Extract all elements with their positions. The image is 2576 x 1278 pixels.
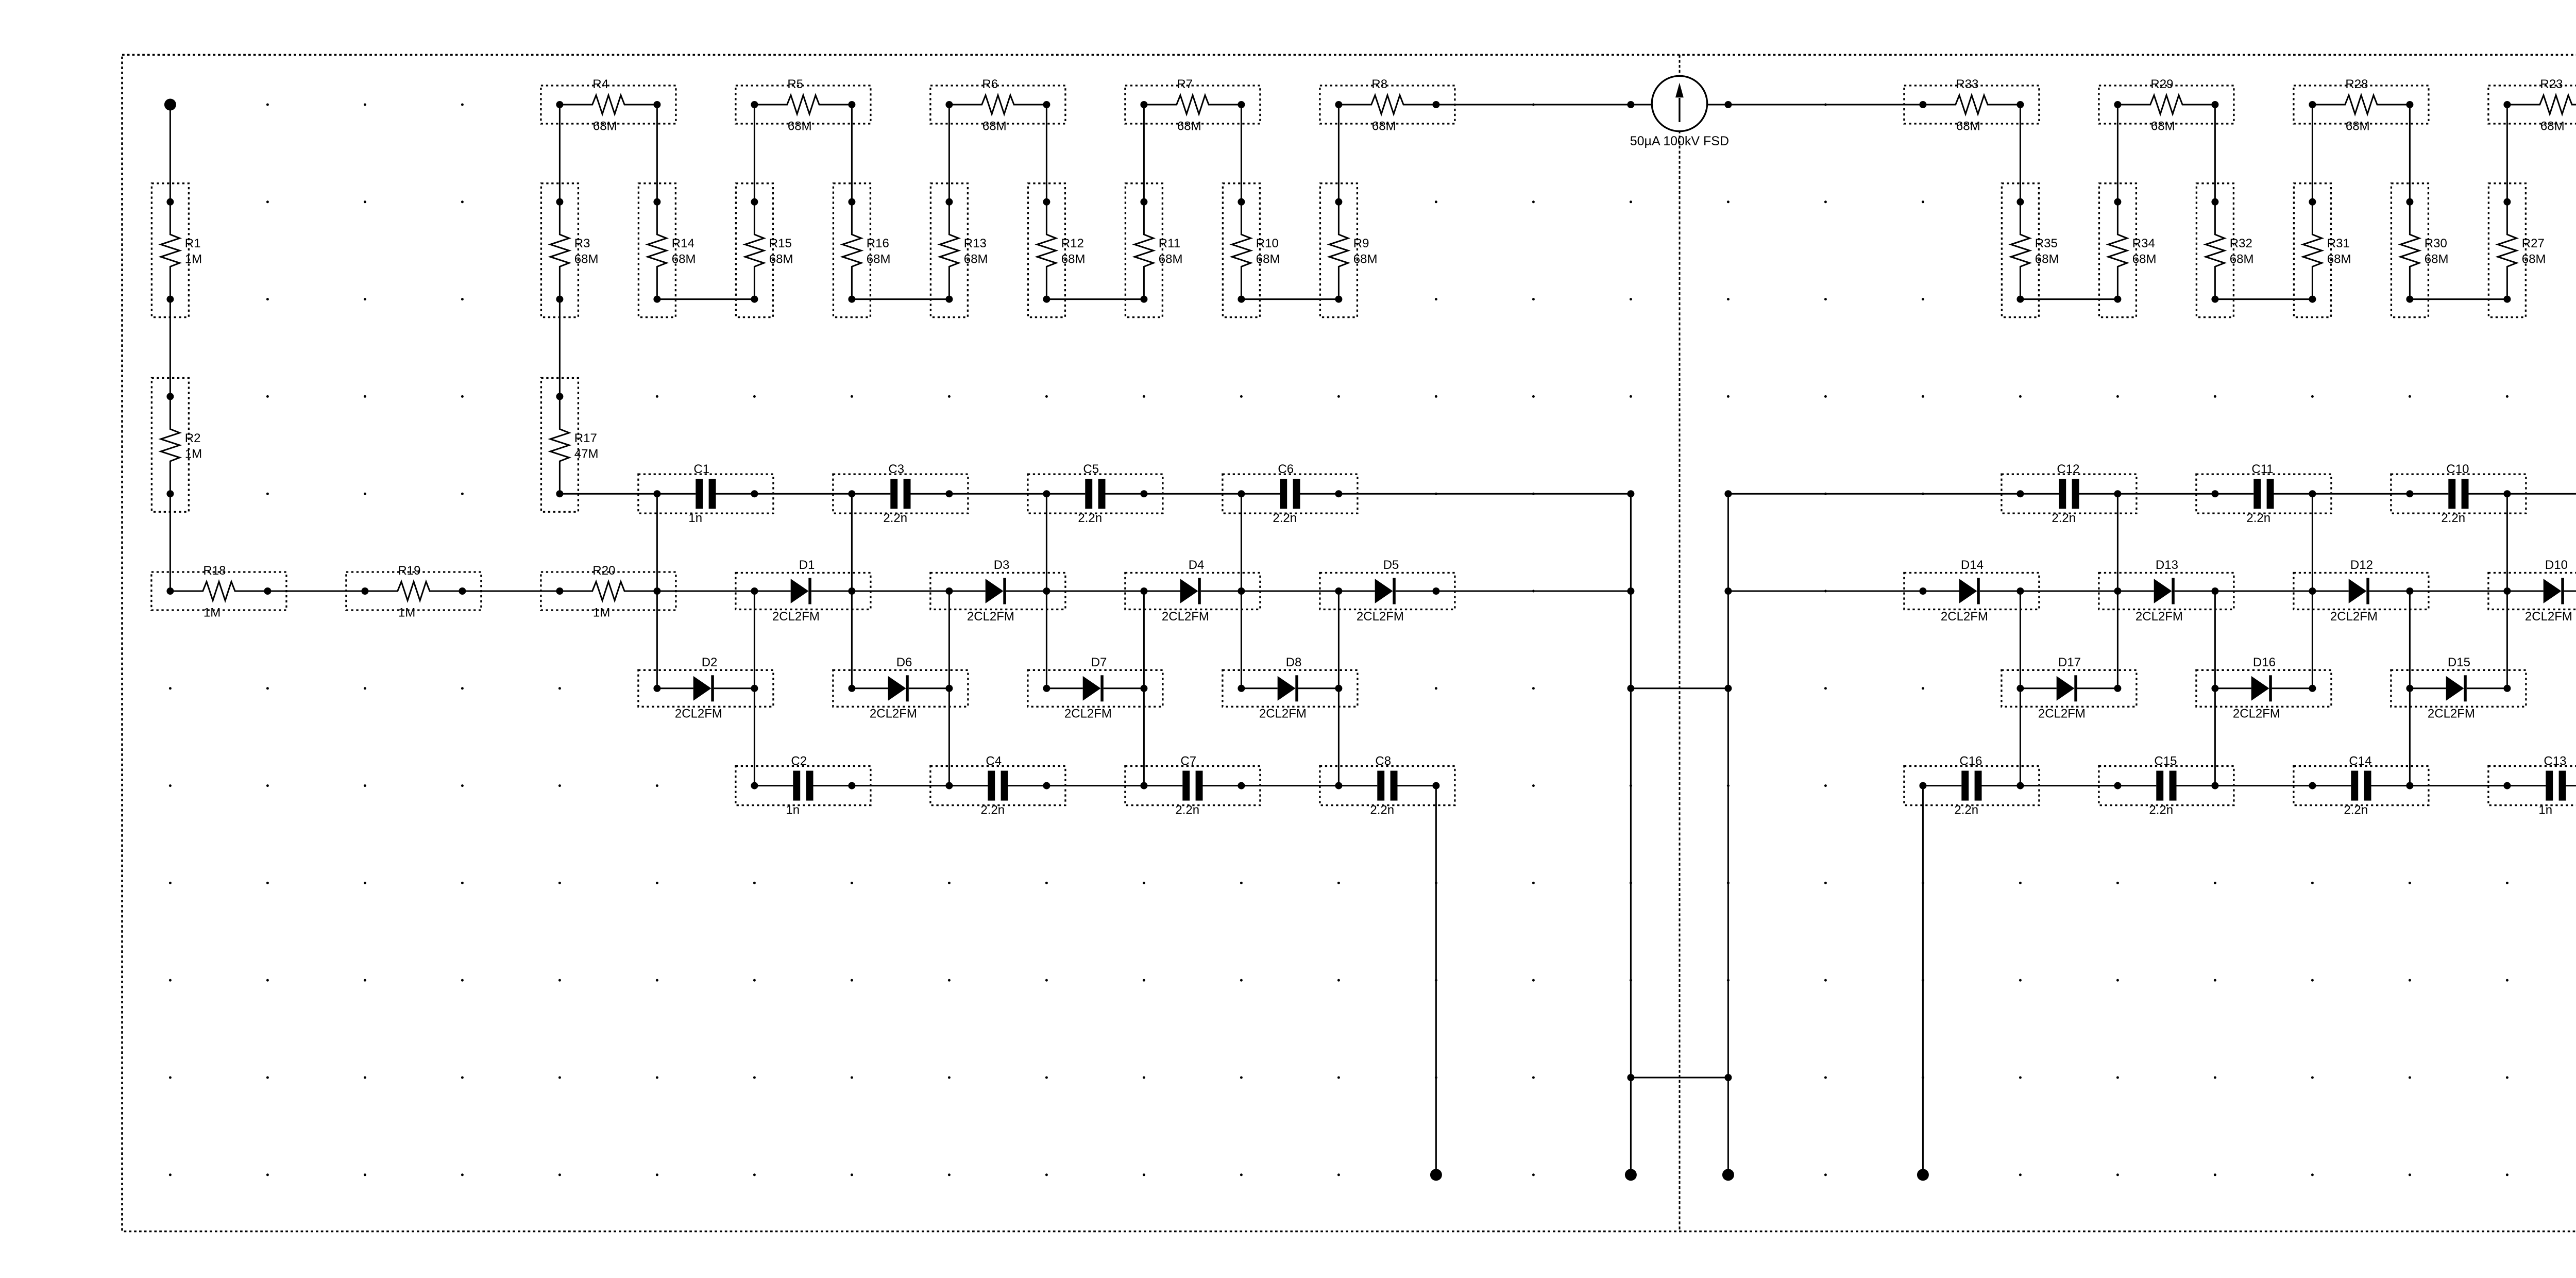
svg-text:2.2n: 2.2n [2149, 803, 2173, 817]
resistor R34 68M [2099, 183, 2156, 317]
svg-text:R10: R10 [1256, 237, 1279, 250]
svg-text:68M: 68M [2522, 253, 2546, 266]
svg-text:D5: D5 [1383, 558, 1399, 572]
wire [754, 591, 755, 786]
diode D8 2CL2FM [1223, 655, 1358, 721]
svg-text:68M: 68M [2132, 253, 2157, 266]
svg-text:C15: C15 [2154, 754, 2177, 768]
resistor R19 1M [346, 564, 481, 619]
svg-text:2.2n: 2.2n [1954, 803, 1978, 817]
wire [949, 493, 1046, 495]
svg-text:47M: 47M [574, 447, 599, 461]
wire C8 to output terminal [1435, 786, 1437, 1175]
svg-text:R27: R27 [2522, 237, 2545, 250]
svg-text:D16: D16 [2253, 655, 2276, 669]
svg-text:2.2n: 2.2n [2441, 511, 2465, 525]
svg-text:68M: 68M [2425, 253, 2449, 266]
svg-text:C6: C6 [1278, 462, 1294, 476]
wire [852, 298, 949, 300]
svg-text:2CL2FM: 2CL2FM [675, 707, 722, 721]
diode D1 2CL2FM [736, 558, 871, 624]
svg-text:C10: C10 [2446, 462, 2469, 476]
wire [2312, 105, 2313, 202]
wire [560, 493, 657, 495]
svg-text:2CL2FM: 2CL2FM [2233, 707, 2280, 721]
svg-text:68M: 68M [2327, 253, 2351, 266]
svg-text:D1: D1 [799, 558, 815, 572]
resistor R6 68M [930, 77, 1065, 133]
wire [754, 493, 852, 495]
svg-text:R14: R14 [672, 237, 694, 250]
svg-text:R4: R4 [592, 77, 608, 91]
wire [2214, 591, 2216, 786]
diode D13 2CL2FM [2099, 558, 2234, 624]
capacitor C15 2.2n [2099, 754, 2234, 817]
svg-text:68M: 68M [2346, 119, 2370, 133]
wire C16 to output terminal [1922, 786, 1924, 1175]
svg-text:68M: 68M [788, 119, 812, 133]
svg-text:2CL2FM: 2CL2FM [870, 707, 917, 721]
svg-text:C4: C4 [986, 754, 1002, 768]
resistor R3 68M [541, 183, 598, 317]
svg-text:R30: R30 [2425, 237, 2447, 250]
wire [1338, 493, 1631, 495]
junction [1627, 685, 1634, 692]
terminal left HV input [164, 99, 176, 111]
svg-text:2.2n: 2.2n [1175, 803, 1199, 817]
svg-text:2CL2FM: 2CL2FM [2136, 610, 2183, 624]
resistor R17 47M [541, 378, 598, 512]
resistor R18 1M [151, 564, 286, 619]
resistor R30 68M [2391, 183, 2448, 317]
svg-text:C16: C16 [1959, 754, 1982, 768]
wire [1241, 785, 1338, 786]
resistor R7 68M [1125, 77, 1260, 133]
wire [1046, 785, 1144, 786]
wire [1144, 493, 1241, 495]
svg-text:R32: R32 [2230, 237, 2252, 250]
svg-text:2CL2FM: 2CL2FM [772, 610, 820, 624]
resistor R4 68M [541, 77, 676, 133]
wire center tie upper [1631, 687, 1728, 689]
svg-text:R23: R23 [2540, 77, 2563, 91]
svg-text:68M: 68M [1372, 119, 1396, 133]
wire [948, 591, 950, 786]
svg-text:1M: 1M [398, 606, 415, 619]
wire center right rail [1727, 494, 1729, 1175]
diode D10 2CL2FM [2488, 558, 2576, 624]
svg-text:R17: R17 [574, 431, 597, 445]
svg-text:2.2n: 2.2n [1370, 803, 1394, 817]
svg-text:1M: 1M [185, 253, 202, 266]
svg-text:2CL2FM: 2CL2FM [1357, 610, 1404, 624]
diode D17 2CL2FM [2002, 655, 2137, 721]
resistor R33 68M [1904, 77, 2039, 133]
resistor R14 68M [638, 183, 696, 317]
svg-text:2CL2FM: 2CL2FM [2525, 610, 2572, 624]
svg-text:C14: C14 [2349, 754, 2371, 768]
svg-text:C7: C7 [1180, 754, 1196, 768]
resistor R28 68M [2294, 77, 2429, 133]
wire [2020, 298, 2117, 300]
svg-text:R9: R9 [1353, 237, 1369, 250]
resistor R5 68M [736, 77, 871, 133]
capacitor C16 2.2n [1904, 754, 2039, 817]
wire [2214, 105, 2216, 202]
resistor R10 68M [1223, 183, 1280, 317]
terminal output C [1722, 1169, 1734, 1181]
resistor R29 68M [2099, 77, 2234, 133]
wire [2020, 591, 2117, 592]
svg-text:68M: 68M [1177, 119, 1201, 133]
wire [851, 494, 853, 688]
wire [1241, 591, 1338, 592]
capacitor C3 2.2n [833, 462, 968, 525]
svg-text:R15: R15 [769, 237, 792, 250]
capacitor C1 1n [638, 462, 773, 525]
wire [2409, 591, 2411, 786]
diode D4 2CL2FM [1125, 558, 1260, 624]
svg-text:2CL2FM: 2CL2FM [1064, 707, 1112, 721]
svg-text:1M: 1M [593, 606, 610, 619]
svg-text:D15: D15 [2448, 655, 2470, 669]
resistor R12 68M [1028, 183, 1085, 317]
svg-text:1M: 1M [185, 447, 202, 461]
wire [1338, 105, 1340, 202]
diode D3 2CL2FM [930, 558, 1065, 624]
svg-text:D2: D2 [702, 655, 718, 669]
wire [2410, 591, 2507, 592]
capacitor C6 2.2n [1223, 462, 1358, 525]
svg-text:2CL2FM: 2CL2FM [1259, 707, 1307, 721]
terminal output B [1625, 1169, 1637, 1181]
wire [1728, 591, 1923, 592]
resistor R1 1M [151, 183, 202, 317]
wire [1338, 591, 1340, 786]
capacitor C5 2.2n [1028, 462, 1163, 525]
wire [657, 591, 754, 592]
wire [2020, 105, 2021, 202]
wire [656, 494, 658, 688]
svg-text:R8: R8 [1371, 77, 1387, 91]
wire [1728, 104, 1923, 106]
wire [2410, 298, 2507, 300]
capacitor C14 2.2n [2294, 754, 2429, 817]
svg-text:R18: R18 [203, 564, 226, 578]
svg-text:D17: D17 [2058, 655, 2081, 669]
resistor R15 68M [736, 183, 793, 317]
svg-text:68M: 68M [2035, 253, 2059, 266]
wire center left rail [1630, 494, 1632, 1175]
capacitor C12 2.2n [2002, 462, 2137, 525]
svg-text:C12: C12 [2057, 462, 2079, 476]
svg-text:2.2n: 2.2n [1273, 511, 1297, 525]
svg-text:2CL2FM: 2CL2FM [967, 610, 1014, 624]
capacitor C11 2.2n [2196, 462, 2331, 525]
wire [559, 299, 561, 397]
resistor R27 68M [2488, 183, 2546, 317]
wire [2215, 785, 2312, 786]
svg-text:2CL2FM: 2CL2FM [1941, 610, 1988, 624]
capacitor C13 1n [2488, 754, 2576, 817]
svg-text:R29: R29 [2150, 77, 2173, 91]
wire [2117, 494, 2119, 688]
resistor R35 68M [2002, 183, 2059, 317]
capacitor C2 1n [736, 754, 871, 817]
svg-text:68M: 68M [769, 253, 793, 266]
svg-text:R13: R13 [964, 237, 987, 250]
wire [1241, 298, 1338, 300]
svg-text:C5: C5 [1083, 462, 1099, 476]
svg-text:R34: R34 [2132, 237, 2155, 250]
resistor R20 1M [541, 564, 676, 619]
capacitor C7 2.2n [1125, 754, 1260, 817]
svg-text:D12: D12 [2350, 558, 2373, 572]
junction [1627, 587, 1634, 595]
wire [2409, 105, 2411, 202]
svg-text:68M: 68M [672, 253, 696, 266]
wire [2020, 591, 2021, 786]
svg-text:R1: R1 [185, 237, 201, 250]
svg-text:R33: R33 [1956, 77, 1978, 91]
resistor R16 68M [833, 183, 890, 317]
svg-text:68M: 68M [593, 119, 617, 133]
svg-text:R3: R3 [574, 237, 590, 250]
svg-text:68M: 68M [867, 253, 891, 266]
svg-text:1n: 1n [688, 511, 702, 525]
svg-text:1n: 1n [786, 803, 800, 817]
svg-text:68M: 68M [2230, 253, 2254, 266]
svg-text:68M: 68M [964, 253, 988, 266]
svg-text:2.2n: 2.2n [2344, 803, 2368, 817]
wire [170, 494, 171, 591]
svg-text:D3: D3 [994, 558, 1010, 572]
resistor R31 68M [2294, 183, 2351, 317]
wire [948, 105, 950, 202]
wire [1143, 591, 1145, 786]
wire [2020, 785, 2117, 786]
resistor R2 1M [151, 378, 202, 512]
diode D5 2CL2FM [1320, 558, 1455, 624]
junction [1627, 1074, 1634, 1081]
svg-text:68M: 68M [2151, 119, 2175, 133]
wire [2507, 493, 2576, 495]
svg-text:C1: C1 [693, 462, 709, 476]
svg-text:D6: D6 [896, 655, 912, 669]
resistor R9 68M [1320, 183, 1377, 317]
wire [851, 105, 853, 202]
diode D14 2CL2FM [1904, 558, 2039, 624]
svg-text:D4: D4 [1189, 558, 1205, 572]
svg-text:2CL2FM: 2CL2FM [2428, 707, 2475, 721]
junction [1724, 1074, 1732, 1081]
svg-text:2.2n: 2.2n [2246, 511, 2270, 525]
wire [559, 105, 561, 202]
wire [657, 298, 754, 300]
svg-text:68M: 68M [1061, 253, 1086, 266]
junction [1724, 685, 1732, 692]
svg-text:D13: D13 [2156, 558, 2178, 572]
wire [2215, 298, 2312, 300]
svg-text:1n: 1n [2538, 803, 2552, 817]
svg-text:2CL2FM: 2CL2FM [2038, 707, 2086, 721]
svg-text:C11: C11 [2251, 462, 2273, 476]
svg-text:C13: C13 [2544, 754, 2566, 768]
meter M1 50uA 100kV FSD [1627, 76, 1732, 148]
wire center tie lower [1631, 1077, 1728, 1079]
wire [1728, 493, 2020, 495]
wire [2312, 494, 2313, 688]
svg-text:68M: 68M [574, 253, 599, 266]
wire [1046, 105, 1047, 202]
svg-text:D7: D7 [1091, 655, 1107, 669]
wire [2506, 494, 2508, 688]
wire [170, 299, 171, 397]
svg-text:D14: D14 [1961, 558, 1984, 572]
junction [1724, 587, 1732, 595]
svg-text:2CL2FM: 2CL2FM [1162, 610, 1209, 624]
wire [852, 591, 949, 592]
svg-text:2.2n: 2.2n [2052, 511, 2076, 525]
diode D6 2CL2FM [833, 655, 968, 721]
svg-text:R31: R31 [2327, 237, 2350, 250]
svg-text:R28: R28 [2345, 77, 2368, 91]
terminal output A [1430, 1169, 1442, 1181]
wire [2312, 493, 2410, 495]
wire [1241, 494, 1242, 688]
wire [170, 105, 171, 202]
wire [2215, 591, 2312, 592]
wire [1046, 298, 1144, 300]
svg-text:68M: 68M [1956, 119, 1980, 133]
svg-text:R35: R35 [2035, 237, 2058, 250]
wire [2410, 785, 2507, 786]
svg-text:68M: 68M [1159, 253, 1183, 266]
wire [462, 591, 560, 592]
wire [2117, 493, 2215, 495]
resistor R13 68M [930, 183, 988, 317]
svg-text:R11: R11 [1159, 237, 1180, 250]
wire [852, 785, 949, 786]
junction [1724, 490, 1732, 497]
wire [754, 105, 755, 202]
diode D15 2CL2FM [2391, 655, 2526, 721]
svg-text:R7: R7 [1177, 77, 1193, 91]
svg-text:2.2n: 2.2n [883, 511, 907, 525]
diode D12 2CL2FM [2294, 558, 2429, 624]
svg-text:R12: R12 [1061, 237, 1084, 250]
svg-text:2.2n: 2.2n [1078, 511, 1102, 525]
svg-text:1M: 1M [204, 606, 221, 619]
wire [1436, 104, 1631, 106]
svg-text:R5: R5 [787, 77, 803, 91]
svg-text:C3: C3 [888, 462, 904, 476]
wire [1143, 105, 1145, 202]
svg-text:D10: D10 [2545, 558, 2568, 572]
svg-text:C2: C2 [791, 754, 807, 768]
svg-text:2.2n: 2.2n [980, 803, 1005, 817]
wire [2506, 105, 2508, 202]
diode D16 2CL2FM [2196, 655, 2331, 721]
resistor R8 68M [1320, 77, 1455, 133]
diode D2 2CL2FM [638, 655, 773, 721]
resistor R11 68M [1125, 183, 1182, 317]
svg-text:R19: R19 [398, 564, 420, 578]
capacitor C10 2.2n [2391, 462, 2526, 525]
junction [1627, 490, 1634, 497]
svg-text:R6: R6 [982, 77, 998, 91]
terminal output D [1917, 1169, 1929, 1181]
capacitor C8 2.2n [1320, 754, 1455, 817]
svg-text:D8: D8 [1286, 655, 1302, 669]
svg-text:68M: 68M [1256, 253, 1280, 266]
svg-text:R20: R20 [592, 564, 615, 578]
svg-text:C8: C8 [1375, 754, 1391, 768]
svg-text:50µA 100kV FSD: 50µA 100kV FSD [1630, 134, 1729, 148]
wire [2117, 105, 2119, 202]
diode D7 2CL2FM [1028, 655, 1163, 721]
wire [1436, 591, 1631, 592]
svg-text:R2: R2 [185, 431, 201, 445]
resistor R23 68M [2488, 77, 2576, 133]
wire [656, 105, 658, 202]
capacitor C4 2.2n [930, 754, 1065, 817]
wire [1046, 494, 1047, 688]
svg-text:68M: 68M [982, 119, 1007, 133]
svg-text:R16: R16 [867, 237, 889, 250]
svg-text:2CL2FM: 2CL2FM [2330, 610, 2378, 624]
wire [1046, 591, 1144, 592]
wire [267, 591, 365, 592]
wire [1241, 105, 1242, 202]
resistor R32 68M [2196, 183, 2253, 317]
svg-text:68M: 68M [2540, 119, 2565, 133]
svg-text:68M: 68M [1353, 253, 1378, 266]
